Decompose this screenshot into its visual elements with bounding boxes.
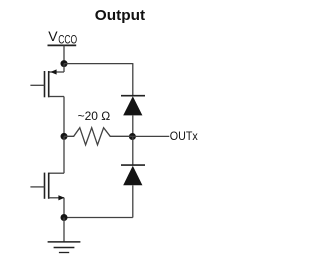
- wire PMOS source lead: [49, 64, 64, 75]
- wire OUTx node to D2 cathode: [132, 136, 134, 165]
- power rail bar VCCO: [48, 44, 77, 46]
- diode D1 (top clamp): [121, 96, 145, 116]
- power net label VCCO: [48, 28, 77, 46]
- diode D2 (bottom clamp): [121, 165, 145, 185]
- resistor R (~20 Ohm) zigzag: [64, 128, 133, 145]
- junction node ground: [61, 214, 68, 221]
- wire Q1 drain lead: [49, 97, 64, 137]
- wire VCCO stem: [63, 45, 65, 63]
- net label OUTx: [170, 129, 198, 143]
- wire Q1 gate lead: [30, 84, 44, 86]
- transistor Q1 PMOS channel bar: [48, 71, 50, 97]
- svg-text:~20 Ω: ~20 Ω: [78, 109, 111, 123]
- svg-text:OUTx: OUTx: [170, 129, 198, 143]
- wire ground stem: [63, 218, 65, 242]
- wire right rail lower: [132, 185, 134, 217]
- wire NMOS drain lead: [49, 136, 64, 173]
- svg-text:Output: Output: [95, 8, 145, 24]
- transistor Q1 PMOS gate bar: [44, 71, 46, 97]
- wire bottom rail: [64, 217, 133, 219]
- junction node OUTx: [129, 133, 136, 140]
- wire OUTx stub: [133, 135, 170, 137]
- value label ~20 Ohm: [78, 109, 111, 123]
- transistor Q2 NMOS channel bar: [48, 173, 50, 199]
- svg-text:CCO: CCO: [58, 32, 77, 46]
- svg-text:V: V: [48, 28, 58, 44]
- junction node resistor left: [61, 133, 68, 140]
- junction node VCCO: [61, 60, 68, 67]
- wire right rail upper: [132, 63, 134, 96]
- transistor Q2 NMOS gate bar: [44, 173, 46, 199]
- wire top rail: [64, 63, 133, 65]
- ground symbol: [48, 242, 81, 253]
- wire Q2 gate lead: [30, 186, 44, 188]
- wire D1 anode to OUTx node: [132, 115, 134, 136]
- wire Q2 source lead with arrow: [49, 195, 65, 217]
- title Output: [95, 8, 145, 24]
